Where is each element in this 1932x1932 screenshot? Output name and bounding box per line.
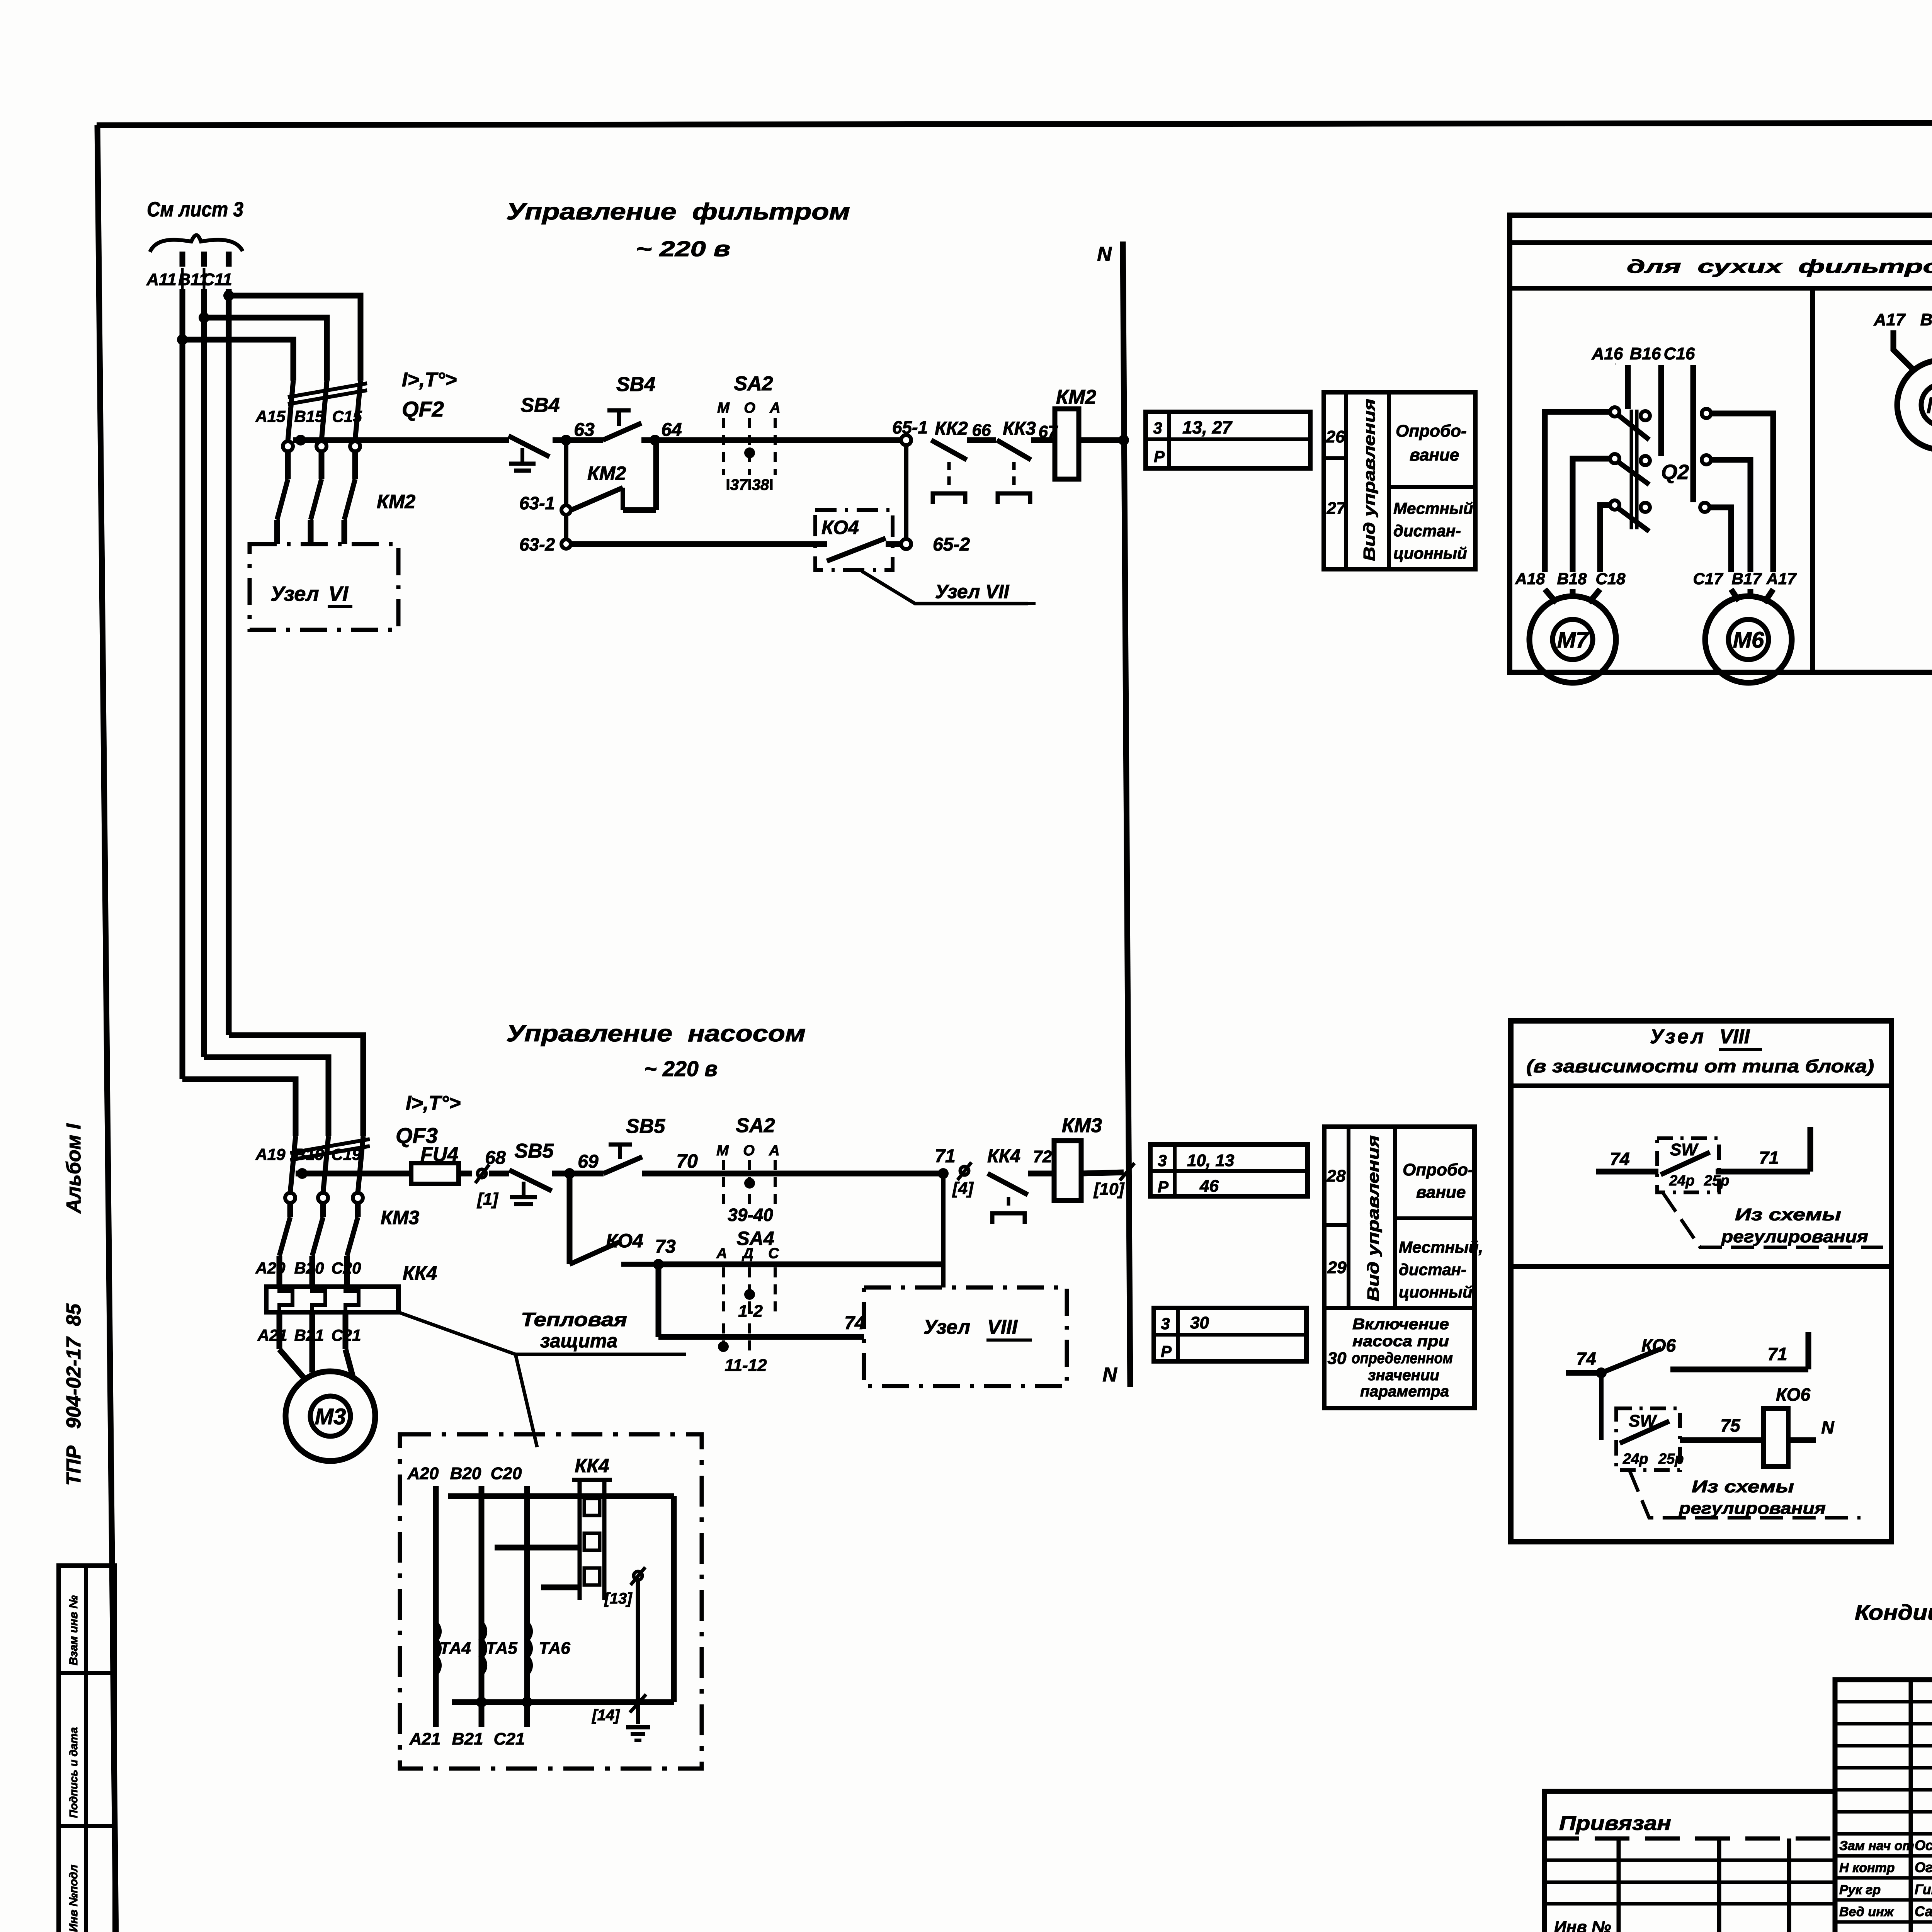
svg-text:О: О xyxy=(744,400,755,416)
svg-text:75: 75 xyxy=(1720,1415,1741,1435)
svg-text:Привязан: Привязан xyxy=(1559,1812,1671,1835)
svg-text:С17: С17 xyxy=(1693,570,1723,588)
svg-text:КК3: КК3 xyxy=(1003,418,1036,439)
svg-text:[10]: [10] xyxy=(1093,1180,1125,1199)
svg-text:Кондиционер: Кондиционер xyxy=(1855,1600,1932,1624)
svg-text:А21: А21 xyxy=(409,1730,441,1748)
svg-text:КМ3: КМ3 xyxy=(381,1207,419,1228)
svg-text:30: 30 xyxy=(1328,1349,1347,1368)
svg-text:С16: С16 xyxy=(1664,344,1695,363)
svg-text:М3: М3 xyxy=(315,1404,346,1429)
svg-text:вание: вание xyxy=(1416,1183,1466,1202)
svg-text:Островский: Островский xyxy=(1915,1837,1932,1853)
svg-text:Зам нач от: Зам нач от xyxy=(1839,1838,1914,1853)
svg-text:SA2: SA2 xyxy=(734,372,773,395)
svg-text:65-1: 65-1 xyxy=(892,417,928,437)
svg-text:В18: В18 xyxy=(1557,570,1587,588)
svg-text:КК2: КК2 xyxy=(935,418,968,439)
svg-text:КО4: КО4 xyxy=(606,1230,643,1252)
svg-text:М: М xyxy=(717,400,730,416)
svg-text:С15: С15 xyxy=(332,407,362,425)
svg-text:I>,T°>: I>,T°> xyxy=(406,1092,461,1114)
svg-text:74: 74 xyxy=(1576,1349,1596,1369)
svg-text:А19: А19 xyxy=(255,1145,286,1163)
svg-text:А20: А20 xyxy=(407,1464,439,1483)
svg-text:В15: В15 xyxy=(294,407,324,425)
svg-text:Н контр: Н контр xyxy=(1839,1861,1895,1875)
svg-text:~ 220 в: ~ 220 в xyxy=(644,1056,718,1081)
svg-text:QF2: QF2 xyxy=(402,397,444,421)
svg-text:Р: Р xyxy=(1158,1178,1169,1196)
svg-text:SA2: SA2 xyxy=(736,1114,775,1137)
svg-text:69: 69 xyxy=(578,1151,599,1172)
svg-text:вание: вание xyxy=(1410,446,1459,464)
svg-text:Местный,: Местный, xyxy=(1399,1238,1483,1256)
svg-text:КМ2: КМ2 xyxy=(1056,386,1096,408)
svg-text:~ 220 в: ~ 220 в xyxy=(636,236,730,261)
svg-text:М7: М7 xyxy=(1557,628,1589,653)
svg-text:КМ2: КМ2 xyxy=(587,463,626,484)
svg-text:Инв №подл: Инв №подл xyxy=(67,1864,80,1932)
svg-text:24р: 24р xyxy=(1622,1451,1648,1467)
svg-text:Рук гр: Рук гр xyxy=(1839,1883,1881,1897)
svg-text:(в зависимости от типа блока): (в зависимости от типа блока) xyxy=(1526,1056,1874,1076)
svg-text:1-2: 1-2 xyxy=(738,1302,763,1321)
svg-text:параметра: параметра xyxy=(1360,1383,1449,1400)
svg-text:КМ2: КМ2 xyxy=(377,491,415,512)
svg-text:[1]: [1] xyxy=(476,1190,498,1209)
svg-text:А: А xyxy=(716,1245,727,1262)
svg-text:71: 71 xyxy=(935,1146,955,1167)
svg-text:Управление фильтром: Управление фильтром xyxy=(506,199,850,224)
svg-text:28: 28 xyxy=(1327,1167,1346,1185)
svg-text:3: 3 xyxy=(1158,1151,1167,1170)
svg-text:А18: А18 xyxy=(1515,570,1545,588)
svg-text:защита: защита xyxy=(540,1330,617,1352)
svg-text:В20: В20 xyxy=(450,1464,481,1483)
svg-text:А15: А15 xyxy=(255,407,286,425)
svg-text:насоса при: насоса при xyxy=(1352,1333,1449,1350)
svg-text:ТА4: ТА4 xyxy=(439,1639,471,1658)
svg-text:значении: значении xyxy=(1368,1367,1439,1384)
svg-text:3: 3 xyxy=(1153,419,1162,437)
svg-text:26: 26 xyxy=(1326,427,1345,446)
svg-text:27: 27 xyxy=(1327,499,1347,518)
svg-text:В19: В19 xyxy=(294,1145,324,1163)
svg-text:А17: А17 xyxy=(1766,570,1797,588)
svg-text:дистан-: дистан- xyxy=(1393,522,1461,540)
svg-text:С: С xyxy=(768,1245,779,1262)
svg-text:Р: Р xyxy=(1161,1342,1172,1361)
svg-text:Альбом I: Альбом I xyxy=(63,1123,85,1214)
svg-text:КО6: КО6 xyxy=(1776,1384,1810,1405)
svg-text:63-1: 63-1 xyxy=(519,493,555,513)
svg-text:Узел: Узел xyxy=(270,582,319,605)
svg-text:71: 71 xyxy=(1767,1344,1787,1364)
svg-text:для сухих фильтров: для сухих фильтров xyxy=(1627,257,1932,277)
svg-text:Q2: Q2 xyxy=(1661,461,1689,484)
svg-text:С20: С20 xyxy=(491,1464,522,1483)
svg-text:[4]: [4] xyxy=(952,1179,974,1198)
svg-text:N: N xyxy=(1097,243,1112,265)
svg-text:КК4: КК4 xyxy=(987,1146,1020,1167)
svg-text:Опробо-: Опробо- xyxy=(1403,1160,1474,1179)
svg-text:Р: Р xyxy=(1154,447,1165,466)
svg-text:11-12: 11-12 xyxy=(724,1356,767,1375)
svg-text:[13]: [13] xyxy=(604,1590,633,1607)
svg-text:[14]: [14] xyxy=(591,1707,620,1724)
svg-text:В16: В16 xyxy=(1630,344,1661,363)
svg-text:Инв №: Инв № xyxy=(1554,1918,1611,1932)
svg-text:Д: Д xyxy=(742,1245,753,1262)
svg-text:N: N xyxy=(1821,1417,1834,1437)
svg-text:I>,T°>: I>,T°> xyxy=(402,369,457,391)
svg-text:А16: А16 xyxy=(1592,344,1623,363)
svg-text:А11: А11 xyxy=(146,270,176,289)
svg-text:Огиенко: Огиенко xyxy=(1915,1859,1932,1875)
svg-text:SB4: SB4 xyxy=(520,394,560,417)
svg-text:КК4: КК4 xyxy=(403,1262,437,1284)
svg-text:SW: SW xyxy=(1670,1140,1699,1159)
svg-text:КК4: КК4 xyxy=(575,1455,609,1476)
svg-text:39-40: 39-40 xyxy=(728,1205,773,1225)
svg-text:Узел VII: Узел VII xyxy=(935,581,1009,602)
svg-text:38: 38 xyxy=(752,476,769,493)
svg-text:регулирования: регулирования xyxy=(1721,1227,1868,1246)
svg-text:С21: С21 xyxy=(494,1730,525,1748)
svg-text:С11: С11 xyxy=(202,270,232,289)
svg-text:3: 3 xyxy=(1161,1315,1170,1333)
svg-text:74: 74 xyxy=(1610,1149,1629,1169)
svg-text:С19: С19 xyxy=(331,1145,361,1163)
svg-text:VIII: VIII xyxy=(987,1316,1018,1338)
svg-text:70: 70 xyxy=(676,1150,698,1172)
svg-text:ционный: ционный xyxy=(1399,1283,1473,1301)
svg-text:24р: 24р xyxy=(1669,1173,1694,1189)
svg-text:66: 66 xyxy=(972,421,991,440)
svg-text:71: 71 xyxy=(1759,1148,1779,1168)
svg-text:Гинодман: Гинодман xyxy=(1915,1881,1932,1897)
svg-text:В21: В21 xyxy=(294,1326,324,1344)
svg-text:А: А xyxy=(769,1143,779,1159)
svg-text:63: 63 xyxy=(574,420,595,440)
svg-text:13, 27: 13, 27 xyxy=(1182,417,1233,437)
svg-text:См лист 3: См лист 3 xyxy=(147,198,243,221)
svg-text:Взам инв №: Взам инв № xyxy=(67,1595,80,1665)
svg-text:ТА5: ТА5 xyxy=(486,1639,517,1658)
svg-text:А: А xyxy=(769,400,780,416)
svg-text:Вид управления: Вид управления xyxy=(1360,399,1378,561)
svg-text:В21: В21 xyxy=(452,1730,483,1748)
svg-text:В17: В17 xyxy=(1731,570,1762,588)
svg-text:А17: А17 xyxy=(1874,310,1906,329)
svg-text:Включение: Включение xyxy=(1352,1316,1449,1333)
svg-text:65-2: 65-2 xyxy=(933,534,970,555)
svg-text:дистан-: дистан- xyxy=(1399,1260,1466,1279)
svg-text:ционный: ционный xyxy=(1393,544,1467,562)
svg-text:SB5: SB5 xyxy=(626,1115,665,1138)
svg-text:Узел: Узел xyxy=(1650,1026,1706,1048)
svg-text:М6: М6 xyxy=(1927,393,1932,418)
svg-text:КО4: КО4 xyxy=(821,517,859,538)
svg-text:А21: А21 xyxy=(257,1326,287,1344)
svg-text:25р: 25р xyxy=(1658,1451,1684,1467)
svg-text:определенном: определенном xyxy=(1352,1350,1453,1367)
svg-text:ТПР 904-02-17 85: ТПР 904-02-17 85 xyxy=(63,1303,85,1486)
svg-text:37: 37 xyxy=(730,476,748,493)
svg-text:Из схемы: Из схемы xyxy=(1735,1205,1841,1224)
svg-text:Вед инж: Вед инж xyxy=(1839,1905,1895,1919)
svg-text:Савелова: Савелова xyxy=(1915,1903,1932,1919)
svg-text:М6: М6 xyxy=(1733,628,1764,653)
svg-text:Управление насосом: Управление насосом xyxy=(506,1020,806,1046)
svg-text:О: О xyxy=(743,1143,755,1159)
svg-text:46: 46 xyxy=(1199,1177,1219,1196)
svg-text:63-2: 63-2 xyxy=(519,534,555,554)
svg-text:25р: 25р xyxy=(1704,1173,1729,1189)
svg-text:Местный: Местный xyxy=(1393,499,1473,517)
svg-text:30: 30 xyxy=(1190,1313,1209,1332)
svg-text:Тепловая: Тепловая xyxy=(521,1309,627,1330)
svg-text:ТА6: ТА6 xyxy=(539,1639,570,1658)
svg-text:М: М xyxy=(716,1143,729,1159)
svg-text:регулирования: регулирования xyxy=(1679,1499,1826,1518)
svg-text:64: 64 xyxy=(661,420,682,440)
svg-text:Опробо-: Опробо- xyxy=(1396,422,1467,440)
svg-text:SB4: SB4 xyxy=(616,373,655,396)
svg-text:SB5: SB5 xyxy=(514,1140,554,1162)
svg-text:72: 72 xyxy=(1033,1147,1052,1166)
svg-text:КМ3: КМ3 xyxy=(1062,1114,1102,1137)
svg-text:Узел: Узел xyxy=(923,1316,970,1338)
svg-text:29: 29 xyxy=(1327,1258,1347,1277)
svg-text:С18: С18 xyxy=(1595,570,1626,588)
svg-text:N: N xyxy=(1102,1364,1117,1386)
svg-text:Вид управления: Вид управления xyxy=(1364,1135,1382,1301)
svg-text:VI: VI xyxy=(328,582,349,605)
svg-text:73: 73 xyxy=(655,1236,676,1257)
svg-text:В17: В17 xyxy=(1920,310,1932,329)
svg-text:10, 13: 10, 13 xyxy=(1187,1151,1234,1170)
svg-text:Подпись и дата: Подпись и дата xyxy=(68,1727,80,1818)
svg-text:Из схемы: Из схемы xyxy=(1692,1477,1794,1496)
svg-text:В20: В20 xyxy=(294,1259,324,1277)
svg-text:VIII: VIII xyxy=(1719,1026,1750,1048)
